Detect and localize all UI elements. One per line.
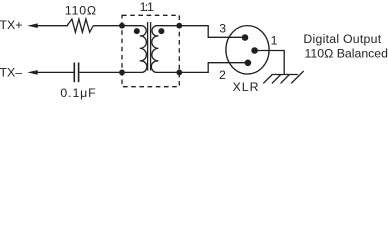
junction dot primary bottom	[119, 70, 125, 76]
wire resistor to transformer primary top node	[93, 25, 122, 27]
wire TX- arrow to capacitor	[37, 71, 74, 73]
wire TX+ arrow to resistor	[37, 25, 69, 27]
chassis ground symbol	[263, 71, 303, 83]
wire capacitor to transformer primary bottom node	[79, 71, 122, 73]
transformer secondary winding	[151, 26, 179, 73]
capacitor C1 plates	[74, 63, 78, 83]
arrow to TX-	[27, 70, 37, 75]
transformer T1 dashed enclosure box	[122, 15, 179, 86]
junction dot secondary bottom	[176, 70, 182, 76]
wire secondary bottom to XLR pin 2	[179, 63, 248, 73]
XLR pin 2 contact dot	[245, 60, 252, 67]
junction dot primary top	[119, 23, 125, 29]
svg-text:1:1: 1:1	[140, 0, 154, 14]
svg-text:TX+: TX+	[0, 18, 22, 32]
arrow to TX+	[27, 23, 37, 28]
transformer primary winding	[122, 26, 147, 73]
svg-text:110Ω: 110Ω	[65, 3, 97, 17]
svg-text:110Ω Balanced: 110Ω Balanced	[305, 47, 388, 61]
svg-text:0.1μF: 0.1μF	[60, 86, 96, 100]
svg-text:Digital Output: Digital Output	[303, 32, 381, 46]
XLR pin 1 contact dot	[251, 47, 258, 54]
svg-text:3: 3	[219, 22, 226, 36]
svg-text:XLR: XLR	[233, 80, 260, 94]
junction dot secondary top	[176, 23, 182, 29]
resistor R1 zigzag	[67, 19, 93, 32]
transformer secondary phase dot	[158, 28, 164, 34]
transformer primary phase dot	[134, 28, 140, 34]
svg-text:1: 1	[271, 33, 278, 47]
XLR connector J1 body circle	[226, 26, 269, 74]
wire XLR pin 1 to chassis ground	[255, 51, 285, 75]
XLR pin 3 contact dot	[242, 34, 249, 41]
wire secondary top to XLR pin 3	[179, 26, 245, 38]
transformer core lines	[148, 22, 151, 71]
svg-text:TX–: TX–	[0, 65, 22, 79]
svg-text:2: 2	[219, 68, 226, 82]
